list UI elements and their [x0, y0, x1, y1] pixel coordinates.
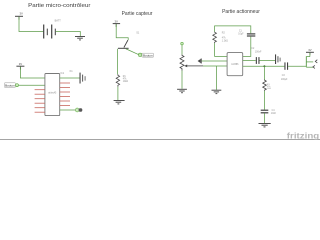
power +3V P1 [15, 12, 23, 20]
wire switch to net label Bouton [126, 49, 139, 55]
resistor R3 [263, 80, 272, 91]
svg-text:10nF: 10nF [271, 113, 277, 115]
wire P3 to switch [116, 24, 128, 40]
net label Bouton (capteur) [139, 53, 154, 57]
junction node [263, 65, 265, 67]
wire pot to ground [181, 71, 183, 89]
svg-text:100µF: 100µF [281, 79, 288, 81]
op-amp IC2 body [227, 53, 243, 76]
ground G2 [114, 100, 125, 104]
ground G1 [75, 36, 85, 40]
wire P2 to IC1 pin1 [20, 67, 45, 78]
svg-text:10Ω: 10Ω [267, 88, 271, 90]
wire end node (pot input) [181, 42, 184, 45]
svg-text:Partie actionneur: Partie actionneur [222, 9, 260, 15]
wire IC2 to C2 to piezo [243, 59, 256, 61]
piezo PZ2 [275, 54, 280, 64]
potentiometer R5 [180, 55, 203, 71]
net label Bouton (left) [4, 83, 18, 88]
speaker top terminal wire [306, 61, 313, 63]
wire label to IC1 pin2 [19, 84, 45, 86]
wire switch to resistor R1 [117, 49, 119, 75]
ground G3 [177, 89, 187, 93]
net label GND (right of IC1) [75, 108, 82, 112]
resistor R2 [213, 32, 228, 44]
speaker bottom terminal wire [306, 66, 313, 68]
wire R2 to IC2 pin [215, 43, 228, 56]
battery BAT1 [43, 20, 61, 39]
svg-text:100nF: 100nF [255, 52, 262, 54]
power +3V P2 [16, 62, 24, 70]
power +3V P3 (capteur) [113, 20, 120, 27]
svg-text:attiny45: attiny45 [48, 91, 57, 94]
wire R3 to C4 [264, 91, 266, 110]
svg-text:Bouton: Bouton [5, 84, 15, 88]
wire IC1 pin8 to net label [60, 109, 76, 111]
microphone input symbol [198, 59, 202, 64]
wire pot wiper to IC2 [203, 65, 227, 67]
svg-text:10kΩ: 10kΩ [123, 81, 129, 83]
piezo K1 [70, 70, 86, 84]
IC1 right red pins [60, 83, 70, 106]
svg-text:3V: 3V [19, 12, 23, 16]
svg-text:LM386: LM386 [231, 64, 239, 66]
wire riser to speaker terminals [305, 57, 307, 68]
svg-text:3V: 3V [19, 62, 23, 66]
wire C1 to IC2 pin [243, 37, 251, 57]
wire mic to IC2 [202, 60, 227, 62]
switch S1 [118, 32, 140, 49]
svg-text:3V: 3V [308, 48, 312, 52]
svg-text:1.2kΩ: 1.2kΩ [222, 40, 228, 42]
wire IC2 output rail [243, 65, 285, 67]
wire IC1 pin to piezo K1 [60, 77, 80, 79]
wire junction down [264, 66, 266, 79]
svg-text:Bouton: Bouton [143, 54, 153, 58]
wire branch to ground G4 [215, 66, 217, 90]
capacitor C1 [238, 30, 255, 36]
ground G5 [259, 123, 271, 127]
svg-text:BATT: BATT [55, 20, 62, 23]
wire C3 to speaker riser [288, 57, 310, 67]
svg-text:fritzing: fritzing [287, 131, 319, 141]
wire C2 to piezo [260, 59, 276, 61]
svg-text:Partie micro-contrôleur: Partie micro-contrôleur [28, 3, 90, 9]
ground G4 [212, 90, 222, 94]
wire top rail [215, 26, 251, 33]
wire R1 to ground [117, 87, 119, 100]
capacitor C2 [251, 48, 262, 64]
resistor R1 [116, 74, 128, 87]
IC1 left red pins [35, 90, 45, 113]
svg-text:10µF: 10µF [238, 34, 244, 36]
wire P1 to battery [19, 17, 43, 32]
wire node to potentiometer [181, 45, 183, 55]
wire battery to ground [56, 32, 81, 37]
svg-text:3V: 3V [114, 20, 118, 24]
svg-text:Partie capteur: Partie capteur [122, 11, 153, 17]
bottom rule [0, 138, 320, 141]
speaker SP1 [313, 60, 317, 69]
capacitor C3 [281, 62, 288, 81]
power +3V P4 [306, 48, 314, 56]
svg-text:IC1: IC1 [60, 72, 65, 75]
wire C4 to ground [264, 113, 266, 123]
IC U1 body [45, 74, 60, 116]
capacitor C4 [261, 110, 277, 115]
